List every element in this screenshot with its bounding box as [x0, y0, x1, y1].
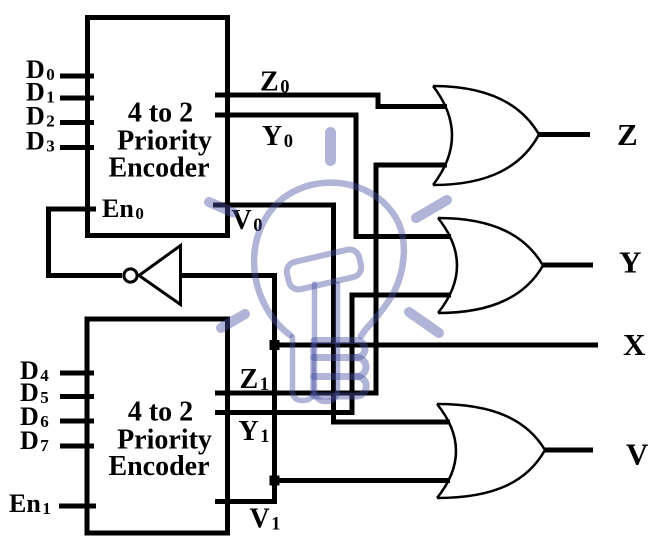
pin D7 stub: [60, 444, 94, 449]
svg-text:V: V: [626, 437, 649, 472]
wire Y0 (U1 to OR gate G2 top input): [215, 115, 451, 237]
pin D2 stub: [60, 120, 94, 125]
pin En0 stub: [46, 207, 96, 212]
or-gate G1 (Z): [433, 86, 539, 185]
pin D4 stub: [60, 371, 94, 376]
pin D3 stub: [60, 145, 94, 150]
pin En1 stub: [59, 504, 96, 509]
wire V output: [545, 448, 593, 453]
svg-text:Z0: Z0: [260, 67, 289, 98]
svg-text:D3: D3: [26, 127, 55, 156]
pin D0 stub: [60, 74, 94, 79]
svg-text:Y0: Y0: [262, 121, 293, 152]
inverter U3 triangle: [139, 246, 181, 305]
svg-text:Encoder: Encoder: [108, 153, 209, 184]
encoder U2 (4 to 2 Priority Encoder, bottom): [87, 319, 228, 533]
wire V1 branch to OR gate G3 bottom input: [275, 478, 451, 483]
wire Z0 (U1 to OR gate G1 top input): [215, 95, 447, 107]
svg-text:En1: En1: [9, 489, 51, 518]
pin D5 stub: [60, 394, 94, 399]
wire X (net V1 to output X): [275, 343, 599, 348]
svg-text:X: X: [623, 327, 646, 362]
wire Z1 (U2 to OR gate G1 bottom input): [215, 165, 447, 393]
junction dot on V1 at G3 input: [270, 476, 280, 486]
svg-text:Encoder: Encoder: [108, 451, 209, 482]
svg-text:Y: Y: [619, 245, 641, 280]
pin D6 stub: [60, 419, 94, 424]
or-gate G2 (Y): [438, 218, 543, 313]
wire Z output: [539, 132, 590, 137]
watermark light bulb: [209, 133, 447, 402]
encoder U1 (4 to 2 Priority Encoder, top): [88, 18, 228, 236]
wire inverter output to En0: [49, 209, 123, 276]
wire V0 (U1 to OR gate G3 top input): [213, 205, 450, 422]
junction dot on V1 at X: [270, 340, 280, 350]
wire Y1 (U2 to OR gate G2 bottom input): [215, 295, 451, 413]
svg-text:Z: Z: [617, 117, 638, 152]
svg-text:En0: En0: [102, 194, 144, 223]
inverter U3 bubble: [124, 269, 137, 282]
svg-text:V1: V1: [250, 504, 281, 535]
wire V1 (U2 to inverter input): [180, 276, 275, 502]
svg-text:Z1: Z1: [240, 364, 269, 395]
or-gate G3 (V): [437, 404, 545, 498]
svg-text:4 to 2: 4 to 2: [128, 397, 193, 428]
svg-text:Y1: Y1: [239, 416, 270, 447]
pin D1 stub: [60, 96, 94, 101]
svg-text:4 to 2: 4 to 2: [128, 98, 193, 129]
wire Y output: [543, 263, 593, 268]
